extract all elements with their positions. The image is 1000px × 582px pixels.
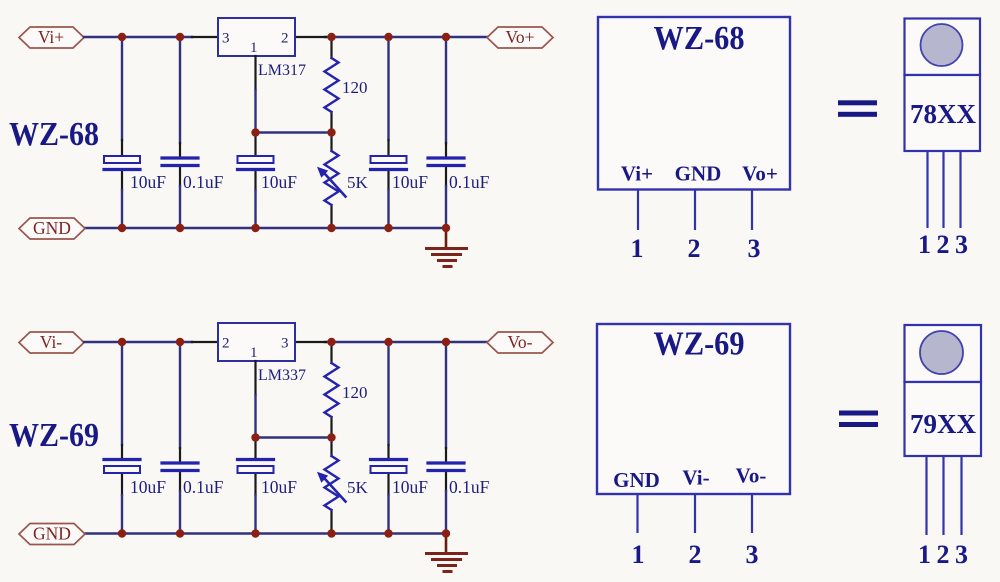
- wire ground rail: [85, 227, 446, 229]
- pin 3 lead LM317: [192, 36, 218, 38]
- capacitor C1 10uF column wire: [121, 37, 123, 140]
- svg-text:1: 1: [250, 40, 258, 56]
- potentiometer RP2 5K leads: [330, 438, 332, 457]
- port GND: [19, 218, 85, 239]
- svg-text:Vi+: Vi+: [38, 27, 64, 47]
- svg-text:2: 2: [689, 540, 702, 569]
- svg-text:WZ-69: WZ-69: [654, 326, 745, 363]
- wire pin1 to ADJ node: [254, 395, 256, 438]
- svg-text:Vo-: Vo-: [508, 332, 533, 352]
- svg-text:3: 3: [955, 540, 968, 569]
- capacitor C6 10uF: [104, 460, 166, 498]
- resistor R2 120: [325, 363, 368, 417]
- resistor R2 120 leads: [330, 342, 332, 363]
- ground: [427, 228, 467, 267]
- pin 1 leg: [637, 190, 639, 231]
- pin 1 lead LM337: [254, 361, 256, 395]
- svg-text:2: 2: [937, 540, 950, 569]
- junction dots top rail: [118, 338, 126, 346]
- capacitor C4 10uF column wire: [387, 37, 389, 140]
- capacitor C10 0.1uF: [428, 463, 490, 497]
- capacitor C6 10uF column wire: [121, 342, 123, 445]
- junction dots top rail: [118, 33, 126, 41]
- svg-text:Vi+: Vi+: [621, 162, 653, 186]
- svg-text:3: 3: [748, 234, 761, 263]
- package leg 3: [959, 151, 961, 228]
- pin 1 lead LM317: [254, 56, 256, 90]
- package 79XX tab: [905, 325, 982, 382]
- svg-text:0.1uF: 0.1uF: [183, 477, 224, 497]
- svg-text:Vo+: Vo+: [505, 27, 534, 47]
- wire input rail: [84, 341, 192, 343]
- svg-text:WZ-68: WZ-68: [9, 116, 99, 153]
- pin 2 leg: [694, 494, 696, 533]
- svg-text:1: 1: [918, 230, 931, 259]
- svg-text:10uF: 10uF: [392, 477, 428, 497]
- equals sign: [839, 411, 878, 428]
- svg-text:WZ-69: WZ-69: [9, 417, 99, 454]
- svg-text:Vi-: Vi-: [682, 466, 709, 490]
- svg-text:2: 2: [222, 336, 230, 352]
- junction dots ADJ node: [251, 128, 259, 136]
- port GND: [19, 524, 85, 545]
- capacitor C9 10uF: [371, 460, 429, 498]
- capacitor C7 0.1uF column wire: [179, 342, 181, 448]
- svg-text:120: 120: [342, 383, 368, 402]
- svg-text:3: 3: [222, 31, 230, 47]
- svg-text:0.1uF: 0.1uF: [183, 172, 224, 192]
- svg-text:WZ-68: WZ-68: [654, 20, 745, 57]
- port Vo-: [487, 332, 553, 353]
- op-amp U2 regulator LM337: [218, 323, 306, 384]
- svg-text:10uF: 10uF: [130, 172, 166, 192]
- capacitor C7 0.1uF: [162, 463, 224, 497]
- ground: [427, 534, 467, 572]
- svg-text:5K: 5K: [347, 478, 369, 497]
- svg-text:0.1uF: 0.1uF: [449, 477, 490, 497]
- pin 3 leg: [751, 190, 753, 231]
- potentiometer RP1 5K leads: [330, 133, 332, 152]
- svg-text:2: 2: [281, 31, 289, 47]
- svg-text:2: 2: [688, 234, 701, 263]
- package 78XX body: [905, 75, 981, 151]
- wire ADJ horizontal: [256, 436, 332, 438]
- package 79XX hole: [920, 331, 963, 374]
- potentiometer RP1 5K: [317, 151, 369, 205]
- package 79XX body: [905, 382, 982, 456]
- capacitor C2 0.1uF: [162, 158, 224, 192]
- pin 2 lead LM337: [192, 341, 218, 343]
- equals sign: [838, 100, 877, 117]
- capacitor C3 10uF: [238, 156, 298, 192]
- svg-text:LM337: LM337: [258, 367, 306, 384]
- junction dots ground rail: [118, 529, 126, 537]
- pin 1 leg: [636, 494, 638, 533]
- port Vi+: [19, 27, 84, 48]
- pin 3 leg: [751, 494, 753, 533]
- capacitor C9 10uF column wire: [387, 342, 389, 445]
- svg-text:3: 3: [955, 230, 968, 259]
- capacitor C5 0.1uF: [428, 158, 490, 192]
- svg-text:Vi-: Vi-: [40, 332, 62, 352]
- capacitor C10 0.1uF column wire: [445, 342, 447, 448]
- svg-text:3: 3: [281, 336, 289, 352]
- svg-text:0.1uF: 0.1uF: [449, 172, 490, 192]
- svg-text:5K: 5K: [347, 173, 369, 192]
- capacitor C2 0.1uF column wire: [179, 37, 181, 143]
- wire ground rail: [85, 532, 446, 534]
- module block WZ-68: [598, 17, 790, 190]
- svg-text:10uF: 10uF: [130, 477, 166, 497]
- pin 2 lead LM317: [295, 36, 326, 38]
- junction dots ADJ node: [251, 433, 259, 441]
- wire input rail: [84, 36, 192, 38]
- svg-text:GND: GND: [33, 218, 71, 238]
- svg-text:10uF: 10uF: [261, 477, 297, 497]
- svg-text:78XX: 78XX: [910, 99, 976, 129]
- resistor R1 120: [325, 58, 368, 112]
- pin 3 lead LM337: [295, 341, 326, 343]
- op-amp U1 regulator LM317: [218, 18, 306, 79]
- capacitor C8 10uF column wire: [254, 438, 256, 459]
- package leg 1: [925, 456, 927, 535]
- svg-text:10uF: 10uF: [392, 172, 428, 192]
- module block WZ-69: [597, 324, 790, 494]
- junction dots ground rail: [118, 224, 126, 232]
- wire output rail: [325, 36, 487, 38]
- wire output rail: [325, 341, 487, 343]
- wire ADJ horizontal: [256, 131, 332, 133]
- port Vi-: [19, 332, 84, 353]
- capacitor C3 10uF column wire: [254, 133, 256, 157]
- svg-text:120: 120: [342, 78, 368, 97]
- svg-text:1: 1: [631, 234, 644, 263]
- package 78XX tab: [905, 19, 981, 76]
- svg-text:3: 3: [746, 540, 759, 569]
- svg-text:2: 2: [937, 230, 950, 259]
- package 78XX hole: [921, 24, 963, 66]
- svg-text:Vo+: Vo+: [742, 162, 778, 186]
- wire pin1 to ADJ node: [254, 90, 256, 133]
- capacitor C8 10uF: [238, 460, 298, 498]
- port Vo+: [487, 27, 553, 48]
- svg-text:Vo-: Vo-: [736, 464, 767, 488]
- capacitor C5 0.1uF column wire: [445, 37, 447, 143]
- package leg 3: [960, 456, 962, 535]
- svg-text:79XX: 79XX: [910, 409, 976, 439]
- package leg 2: [942, 151, 944, 228]
- capacitor C1 10uF: [104, 156, 166, 192]
- svg-text:1: 1: [632, 540, 645, 569]
- svg-text:10uF: 10uF: [261, 172, 297, 192]
- svg-text:GND: GND: [675, 162, 722, 186]
- potentiometer RP2 5K: [317, 456, 369, 510]
- svg-text:GND: GND: [613, 468, 660, 492]
- package leg 1: [926, 151, 928, 228]
- resistor R1 120 leads: [330, 37, 332, 58]
- svg-text:1: 1: [250, 345, 258, 361]
- svg-text:GND: GND: [33, 524, 71, 544]
- package leg 2: [942, 456, 944, 535]
- svg-text:1: 1: [918, 540, 931, 569]
- svg-text:LM317: LM317: [258, 62, 306, 79]
- pin 2 leg: [694, 190, 696, 231]
- capacitor C4 10uF: [371, 156, 429, 192]
